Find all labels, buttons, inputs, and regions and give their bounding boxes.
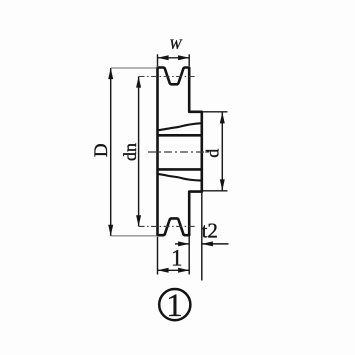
dimension D leaders bbox=[111, 68, 157, 236]
pulley section outline bbox=[158, 68, 202, 236]
dimension W line bbox=[158, 57, 190, 59]
dimension l line bbox=[158, 269, 190, 271]
dimension W arrows bbox=[158, 55, 190, 60]
svg-text:1: 1 bbox=[166, 288, 183, 324]
dimension t2 extension lines bbox=[189, 192, 202, 280]
svg-text:dn: dn bbox=[120, 143, 140, 161]
dimension t2 arrow tails bbox=[175, 243, 229, 245]
bore bottom line bbox=[158, 168, 202, 171]
dimension d arrows bbox=[220, 112, 225, 190]
dimension t2 arrows bbox=[178, 241, 213, 246]
dimension l arrows bbox=[158, 268, 190, 273]
dimension l extension line left bbox=[157, 237, 159, 275]
svg-text:t2: t2 bbox=[202, 218, 218, 242]
taper bushing split line lower bbox=[158, 174, 201, 181]
dimension D arrows bbox=[108, 68, 113, 236]
svg-text:d: d bbox=[203, 149, 223, 158]
svg-text:1: 1 bbox=[171, 245, 183, 270]
svg-text:D: D bbox=[91, 143, 112, 157]
figure number circle bbox=[159, 289, 190, 320]
center line (axis) bbox=[148, 151, 211, 153]
dimension dn datum leaders (dash-dot) bbox=[139, 77, 196, 227]
dimension dn arrows bbox=[136, 77, 141, 227]
dimension d extension lines bbox=[203, 112, 228, 191]
svg-text:W: W bbox=[169, 37, 182, 53]
dimension dn line bbox=[138, 77, 140, 227]
dimension D line bbox=[110, 68, 112, 236]
dimension W extension lines bbox=[158, 54, 190, 66]
bore top line bbox=[158, 134, 202, 137]
taper bushing split line upper bbox=[158, 123, 202, 130]
dimension d line bbox=[221, 112, 223, 190]
